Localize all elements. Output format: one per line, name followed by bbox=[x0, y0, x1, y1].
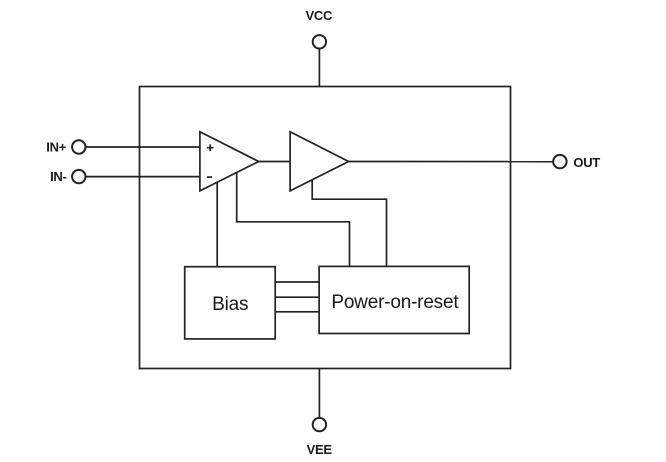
wire A2 to Power-on-reset bbox=[312, 180, 386, 267]
svg-text:Bias: Bias bbox=[212, 294, 248, 315]
IN+ terminal bbox=[72, 140, 85, 153]
Power-on-reset block bbox=[319, 266, 469, 333]
svg-text:IN-: IN- bbox=[50, 169, 66, 184]
bus line 2 Bias to POR bbox=[275, 296, 319, 298]
wire A1 to Bias bbox=[216, 182, 218, 267]
bus line 1 Bias to POR bbox=[275, 281, 319, 283]
wire A1 to Power-on-reset bbox=[237, 172, 350, 266]
outer IC boundary box bbox=[140, 87, 511, 369]
Bias block bbox=[185, 267, 276, 339]
plus marking on A1 bbox=[207, 144, 214, 151]
wire A2 output to OUT terminal bbox=[349, 161, 554, 163]
bus line 3 Bias to POR bbox=[275, 311, 319, 313]
VEE terminal bbox=[313, 418, 326, 431]
wire VCC to top edge bbox=[318, 49, 320, 87]
wire IN+ bbox=[86, 146, 200, 148]
wire IN- bbox=[86, 176, 200, 178]
svg-text:VCC: VCC bbox=[306, 8, 333, 23]
svg-text:VEE: VEE bbox=[307, 442, 333, 457]
op-amp A1 input stage triangle bbox=[200, 132, 259, 191]
svg-text:OUT: OUT bbox=[573, 155, 600, 170]
wire A1 output to A2 input bbox=[259, 161, 290, 163]
IN- terminal bbox=[72, 170, 85, 183]
buffer A2 triangle bbox=[290, 132, 349, 191]
svg-text:IN+: IN+ bbox=[46, 140, 66, 155]
svg-text:Power-on-reset: Power-on-reset bbox=[331, 292, 459, 313]
wire bottom edge to VEE bbox=[318, 369, 320, 418]
VCC terminal bbox=[313, 35, 326, 48]
OUT terminal bbox=[553, 155, 566, 168]
minus marking on A1 bbox=[207, 176, 212, 178]
